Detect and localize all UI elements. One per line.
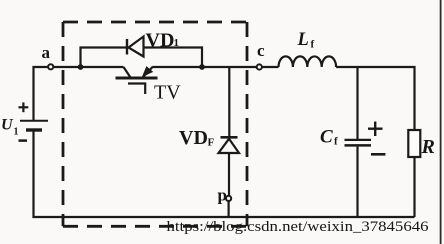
svg-text:VD: VD xyxy=(179,127,208,149)
battery U1 top plate xyxy=(20,120,48,122)
battery minus sign xyxy=(19,139,28,142)
node c xyxy=(257,64,262,69)
capacitor minus sign xyxy=(371,153,385,156)
node junction VD1 right xyxy=(199,64,205,70)
wire resistor bottom xyxy=(413,157,415,217)
inductor Lf xyxy=(279,56,337,67)
transistor TV channel bar xyxy=(116,77,158,80)
wire inductor to right corner xyxy=(336,67,414,130)
svg-text:L: L xyxy=(297,30,309,50)
svg-text:VD: VD xyxy=(146,30,175,52)
wire VDF branch top xyxy=(228,67,230,137)
wire capacitor branch top xyxy=(356,67,358,139)
svg-text:U: U xyxy=(1,117,14,134)
node junction VD1 left xyxy=(78,64,84,70)
svg-text:a: a xyxy=(42,43,51,62)
transistor TV gate bar xyxy=(128,82,146,84)
capacitor Cf top plate xyxy=(345,139,372,141)
svg-text:1: 1 xyxy=(14,127,19,138)
svg-text:c: c xyxy=(257,41,265,60)
transistor TV emitter arrow xyxy=(142,66,153,77)
svg-text:p: p xyxy=(218,186,227,205)
svg-text:f: f xyxy=(334,136,338,148)
node a xyxy=(48,64,53,69)
wire c to inductor xyxy=(262,66,278,68)
wire battery to bottom rail xyxy=(34,132,415,218)
svg-text:R: R xyxy=(421,136,435,158)
wire a to TV collector xyxy=(54,66,124,68)
diode VD1 triangle xyxy=(129,37,144,57)
diode VDF triangle xyxy=(219,139,240,153)
svg-text:https://blog.csdn.net/weixin_3: https://blog.csdn.net/weixin_37845646 xyxy=(167,219,430,235)
scan artifact right edge xyxy=(440,0,442,244)
battery U1 bottom plate xyxy=(26,128,42,131)
wire VDF to node p xyxy=(228,153,230,196)
wire VD1 right branch xyxy=(144,48,203,68)
svg-text:TV: TV xyxy=(154,82,181,104)
wire capacitor branch bottom xyxy=(356,147,358,217)
svg-text:C: C xyxy=(320,127,333,148)
svg-text:1: 1 xyxy=(174,37,180,49)
svg-text:f: f xyxy=(311,39,315,51)
battery plus sign xyxy=(19,102,29,112)
transistor TV emitter slant xyxy=(143,67,153,78)
resistor R body xyxy=(408,130,420,157)
diode VD1 cathode bar xyxy=(126,39,128,55)
transistor TV gate lead xyxy=(144,84,146,95)
svg-text:F: F xyxy=(208,137,215,149)
wire TV to node c xyxy=(153,66,256,68)
wire p to bottom rail xyxy=(228,202,230,217)
capacitor Cf bottom plate xyxy=(345,144,372,147)
diode VDF cathode bar xyxy=(221,136,238,139)
dashed boundary box xyxy=(63,22,247,226)
transistor TV collector slant xyxy=(124,67,131,78)
capacitor plus sign xyxy=(368,122,383,137)
wire left rail top xyxy=(34,67,48,120)
node p xyxy=(226,196,231,201)
wire VD1 left branch xyxy=(81,48,127,67)
